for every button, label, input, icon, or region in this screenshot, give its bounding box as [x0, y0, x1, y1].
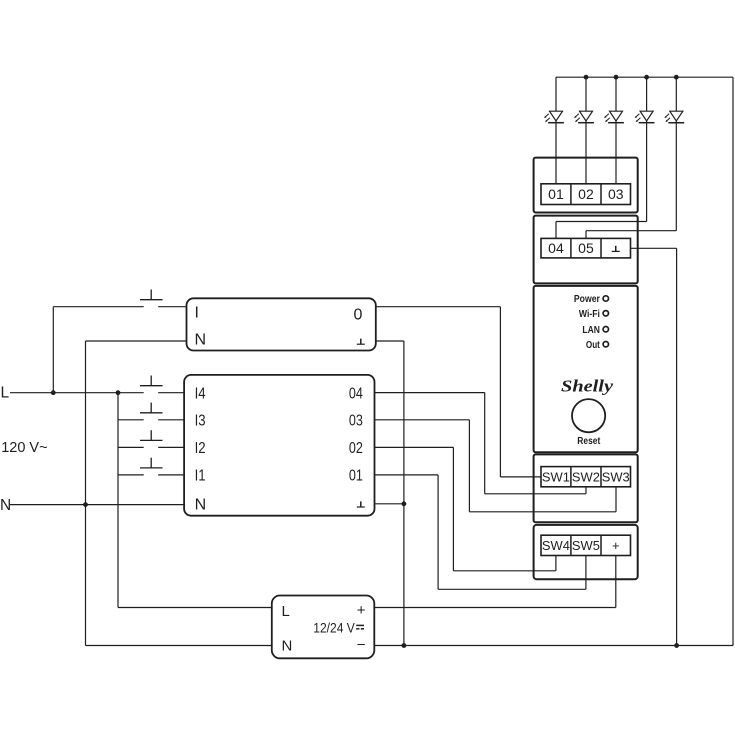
svg-text:−: − — [357, 637, 366, 654]
svg-text:04: 04 — [349, 385, 363, 402]
svg-text:I3: I3 — [195, 413, 206, 430]
svg-text:03: 03 — [608, 186, 624, 202]
svg-text:01: 01 — [548, 186, 564, 202]
svg-text:120 V~: 120 V~ — [1, 440, 47, 456]
svg-text:I4: I4 — [195, 385, 206, 402]
svg-text:02: 02 — [349, 440, 363, 457]
svg-text:SW2: SW2 — [572, 470, 600, 484]
svg-text:N: N — [0, 497, 11, 514]
svg-text:N: N — [195, 331, 207, 348]
svg-text:02: 02 — [578, 186, 594, 202]
svg-text:Reset: Reset — [577, 435, 600, 447]
svg-text:N: N — [195, 497, 207, 514]
svg-text:LAN: LAN — [582, 325, 600, 336]
svg-text:L: L — [1, 385, 10, 402]
svg-text:+: + — [612, 538, 620, 553]
svg-text:Out: Out — [586, 340, 601, 351]
svg-text:I: I — [195, 305, 199, 322]
svg-text:SW5: SW5 — [572, 539, 600, 553]
svg-text:I2: I2 — [195, 440, 206, 457]
svg-text:01: 01 — [349, 468, 363, 485]
svg-text:Wi-Fi: Wi-Fi — [579, 309, 600, 320]
svg-text:05: 05 — [578, 240, 594, 256]
svg-text:12/24 V: 12/24 V — [313, 619, 355, 635]
svg-text:SW3: SW3 — [602, 470, 630, 484]
svg-text:0: 0 — [354, 307, 363, 324]
svg-text:N: N — [282, 638, 293, 655]
svg-text:SW4: SW4 — [542, 539, 570, 553]
svg-text:Shelly: Shelly — [561, 376, 614, 395]
svg-text:Power: Power — [574, 294, 600, 305]
svg-text:04: 04 — [548, 240, 564, 256]
svg-text:SW1: SW1 — [542, 470, 570, 484]
svg-text:L: L — [282, 603, 290, 620]
svg-text:I1: I1 — [195, 468, 206, 485]
svg-text:03: 03 — [349, 413, 363, 430]
svg-text:+: + — [357, 602, 366, 619]
